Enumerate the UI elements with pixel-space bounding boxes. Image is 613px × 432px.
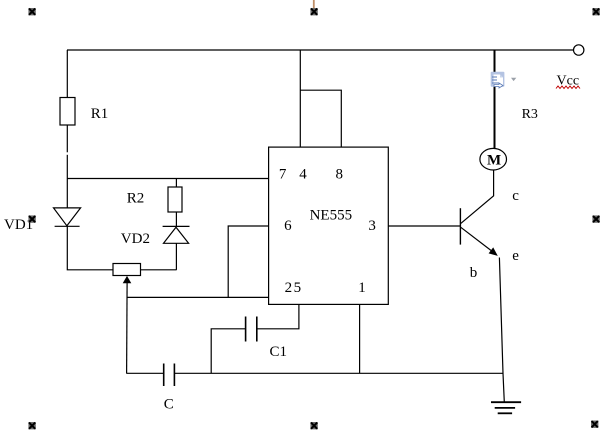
wire pin 1 down (359, 304, 361, 373)
handle bottom-left (28, 422, 35, 429)
svg-text:7: 7 (279, 167, 287, 183)
ground (491, 402, 521, 413)
svg-text:b: b (470, 265, 478, 281)
svg-text:VD2: VD2 (121, 231, 150, 247)
wire motor top (494, 50, 496, 148)
paste options icon (491, 72, 505, 88)
svg-text:8: 8 (336, 167, 344, 183)
capacitor C1 (246, 317, 257, 342)
handle top-right (592, 8, 599, 15)
handle bottom-middle (310, 422, 317, 429)
wire pin 8 loop (300, 90, 341, 147)
anchor line above top-middle handle (313, 0, 315, 9)
svg-text:C: C (164, 397, 174, 413)
wire C1 left (211, 329, 245, 374)
diode VD2 (163, 226, 190, 243)
wire node to pin 7 (67, 178, 268, 180)
svg-text:e: e (512, 248, 519, 264)
wire R1 bottom to junction (66, 125, 68, 152)
svg-text:NE555: NE555 (310, 207, 353, 223)
resistor R2 (168, 187, 182, 212)
handle bottom-right (591, 421, 598, 428)
paste options dropdown arrow (511, 78, 516, 81)
svg-text:C1: C1 (270, 344, 288, 360)
handle top-middle (310, 8, 317, 15)
svg-text:3: 3 (368, 218, 376, 234)
wire R2 bottom (175, 212, 177, 226)
svg-text:R2: R2 (127, 191, 145, 207)
wire pin 5 to C1 (257, 304, 299, 328)
capacitor C (164, 364, 175, 387)
terminal circle Vcc (574, 45, 584, 55)
svg-text:4: 4 (299, 167, 307, 183)
svg-text:R3: R3 (522, 107, 538, 122)
wire bottom rail left (126, 372, 163, 374)
wire junction to VD1 top (66, 155, 68, 208)
svg-text:Vcc: Vcc (557, 74, 580, 89)
resistor R1 (60, 98, 75, 126)
svg-text:R1: R1 (91, 106, 109, 122)
svg-text:c: c (512, 188, 519, 204)
potentiometer RP (113, 264, 141, 276)
handle middle-left (28, 215, 35, 222)
handle middle-right (592, 215, 599, 222)
wire pot right to VD2 bottom (141, 269, 177, 271)
svg-text:M: M (487, 153, 501, 169)
svg-text:2: 2 (285, 280, 293, 296)
IC U1 NE555 box (269, 147, 389, 304)
svg-text:6: 6 (284, 218, 292, 234)
wire bottom rail right (174, 372, 502, 374)
wire VD2 bottom vertical (175, 243, 177, 269)
diode VD1 (54, 208, 81, 226)
wire rail to R1 top (66, 50, 68, 98)
transistor Q1 (460, 170, 504, 402)
svg-text:1: 1 (358, 280, 366, 296)
wire top Vcc rail (67, 49, 574, 51)
pot wiper arrow (123, 276, 132, 373)
wire pin 2 horizontal (127, 296, 269, 298)
wire pin 6 loop (228, 226, 268, 297)
wire pin 3 to base (388, 225, 460, 227)
wire R2 top (175, 179, 177, 188)
wire VD1 bottom to pot (67, 226, 113, 269)
handle top-left (28, 8, 35, 15)
Vcc red squiggly underline (556, 86, 580, 89)
svg-text:5: 5 (294, 280, 302, 296)
motor M (480, 148, 507, 170)
wire pin 4 to rail (299, 50, 301, 147)
